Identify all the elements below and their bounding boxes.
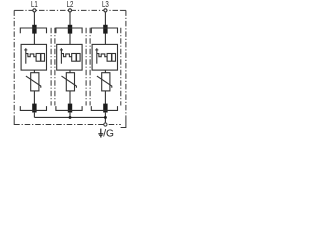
svg-text:L2: L2 (67, 0, 74, 9)
svg-text:L3: L3 (102, 0, 109, 9)
svg-text:L1: L1 (31, 0, 38, 9)
svg-text:/G: /G (103, 129, 114, 140)
